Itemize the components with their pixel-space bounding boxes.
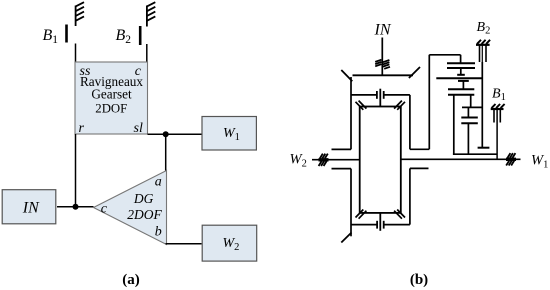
svg-text:B1: B1 [492, 87, 506, 104]
svg-text:W2: W2 [290, 151, 307, 169]
box IN [2, 190, 56, 224]
mesh mark bottom-right [394, 210, 405, 219]
brake B2 plate [139, 26, 142, 45]
svg-text:b: b [155, 225, 162, 240]
left shaft lower [350, 169, 352, 237]
clutch top right plate [383, 91, 385, 99]
input shaft [381, 38, 383, 76]
svg-text:W1: W1 [531, 152, 548, 170]
brake B1 ground bar [491, 108, 504, 110]
brake B1 pack long1 [448, 88, 474, 90]
svg-text:c: c [101, 202, 108, 217]
brake B2 ground stub left [479, 45, 481, 62]
carrier bar [353, 74, 414, 76]
clutch bottom right lead [384, 224, 410, 226]
brake B1 pack long2 [448, 94, 474, 96]
mesh mark top-left [356, 101, 367, 110]
brake B1 ground stub right [499, 109, 501, 122]
drum vertical [481, 45, 483, 62]
housing left vertical [428, 55, 430, 150]
svg-text:2DOF: 2DOF [127, 207, 162, 222]
brake B1 pack short plate [458, 80, 469, 82]
bearing W1 hatch [506, 153, 516, 165]
wire junction down to DG a [165, 134, 167, 171]
brake B1 plate [65, 25, 68, 43]
brake B2 ground stub right [485, 45, 487, 62]
svg-text:(a): (a) [122, 272, 140, 288]
svg-text:DG: DG [133, 191, 154, 206]
box Ravigneaux gearset [75, 62, 148, 136]
brake B2 ground hatch [477, 40, 490, 44]
wire r down [75, 134, 77, 207]
brake B2 pack plate2 [447, 67, 475, 69]
wire sl to W1 [148, 133, 203, 135]
brake B1 pack tick [462, 81, 464, 89]
svg-text:IN: IN [22, 200, 40, 217]
oneway tick upper [467, 107, 469, 117]
box W1 [202, 117, 256, 151]
bearing W2 hatch [319, 154, 329, 166]
housing feed vertical [460, 55, 462, 63]
left shaft lower end slash [341, 233, 351, 243]
brake B1 ground [76, 2, 84, 26]
brake B1 ground stub left [493, 109, 495, 122]
brake B2 ground [147, 2, 155, 26]
right hollow lower stub [410, 167, 429, 169]
wire IN to DG [57, 206, 94, 208]
node junction IN [73, 204, 79, 210]
left hollow shaft upper stub [332, 148, 352, 150]
brake B2 ground bar [476, 44, 490, 46]
brake B2 pack plate1 [447, 62, 475, 64]
clutch top stem [379, 89, 381, 107]
clutch top left plate [376, 91, 378, 99]
brake B2 pack foot [457, 74, 465, 76]
wire B2 to gearset [146, 44, 148, 63]
clutch bottom stem [379, 213, 381, 231]
clutch bottom right plate [383, 221, 385, 229]
brake B1 left leg [453, 95, 455, 155]
svg-text:2DOF: 2DOF [95, 101, 127, 115]
gear unit frame [360, 107, 401, 213]
carrier bar left slash [341, 70, 352, 81]
brake B2 pack tick [460, 68, 462, 75]
shaft W2 [312, 159, 360, 161]
drum foot plate [478, 147, 490, 149]
mesh mark bottom-left [356, 210, 367, 219]
left shaft upper [350, 77, 352, 149]
oneway plate B [461, 122, 478, 124]
svg-text:Gearset: Gearset [91, 87, 132, 102]
svg-text:sl: sl [134, 121, 143, 136]
right hollow upper stub [410, 148, 429, 150]
housing top [429, 54, 460, 56]
right shaft upper [409, 95, 411, 149]
clutch bottom left plate [376, 221, 378, 229]
oneway plate A [461, 117, 478, 119]
box W2 [202, 225, 257, 261]
svg-text:B2: B2 [477, 20, 491, 37]
brake B2 wide plate [436, 77, 482, 79]
left hollow shaft lower stub [332, 168, 352, 170]
clutch top left lead [351, 94, 377, 96]
input bearing hatch [375, 60, 390, 69]
right shaft lower [409, 168, 411, 224]
svg-text:B1: B1 [43, 27, 59, 46]
brake B1 ground hatch [492, 104, 505, 108]
step vertical [496, 110, 498, 159]
wire B1 to gearset [75, 44, 77, 63]
oneway tick lower [467, 123, 469, 154]
brake B1 right leg [470, 95, 472, 108]
oneway top horizontal [462, 106, 482, 108]
svg-text:IN: IN [374, 22, 392, 39]
clutch bottom left lead [351, 224, 377, 226]
svg-text:r: r [79, 121, 85, 136]
mesh mark top-right [394, 101, 405, 110]
svg-text:(b): (b) [410, 272, 428, 288]
svg-text:B2: B2 [116, 27, 132, 46]
shaft W1 centerline [401, 158, 521, 160]
node junction W1 [163, 131, 169, 137]
lower horizontal [453, 153, 497, 155]
clutch top right lead [384, 94, 410, 96]
triangle DG [94, 171, 167, 245]
svg-text:a: a [155, 175, 162, 190]
wire b to W2 [166, 243, 202, 245]
carrier bar right slash [409, 67, 420, 78]
